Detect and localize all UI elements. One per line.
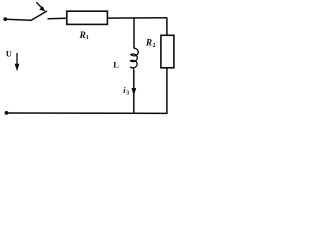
switch S blade (open, angled up): [31, 11, 48, 21]
switch actuation arrow (pointing down-right onto blade): [36, 2, 42, 8]
wire: R2 bottom to bottom-right corner: [166, 68, 168, 114]
voltage arrow U (down): [16, 53, 18, 65]
inductor L (coil, three loops): [130, 48, 138, 70]
svg-text:R: R: [79, 31, 86, 41]
svg-text:L: L: [113, 60, 119, 70]
node: top-left terminal dot: [3, 17, 7, 21]
svg-text:2: 2: [153, 43, 156, 49]
svg-text:R: R: [145, 38, 152, 48]
wire: inductor to bottom wire: [133, 70, 135, 114]
node: junction of inductor branch with top wire: [133, 18, 135, 49]
svg-text:1: 1: [86, 34, 89, 41]
wire: bottom return wire: [7, 112, 168, 114]
resistor R1 (box): [67, 11, 108, 24]
wire: switch fixed contact to R1: [48, 17, 67, 20]
current arrow i3 (down): [132, 88, 137, 96]
resistor R2 (vertical box): [161, 35, 174, 68]
node: bottom-left terminal dot: [5, 111, 9, 115]
svg-text:U: U: [6, 49, 12, 59]
wire: top-right corner down to R2: [166, 18, 168, 36]
svg-text:3: 3: [126, 91, 129, 97]
wire: R1 to top-right corner: [107, 17, 167, 19]
wire: top-left terminal to switch pivot: [5, 19, 31, 20]
